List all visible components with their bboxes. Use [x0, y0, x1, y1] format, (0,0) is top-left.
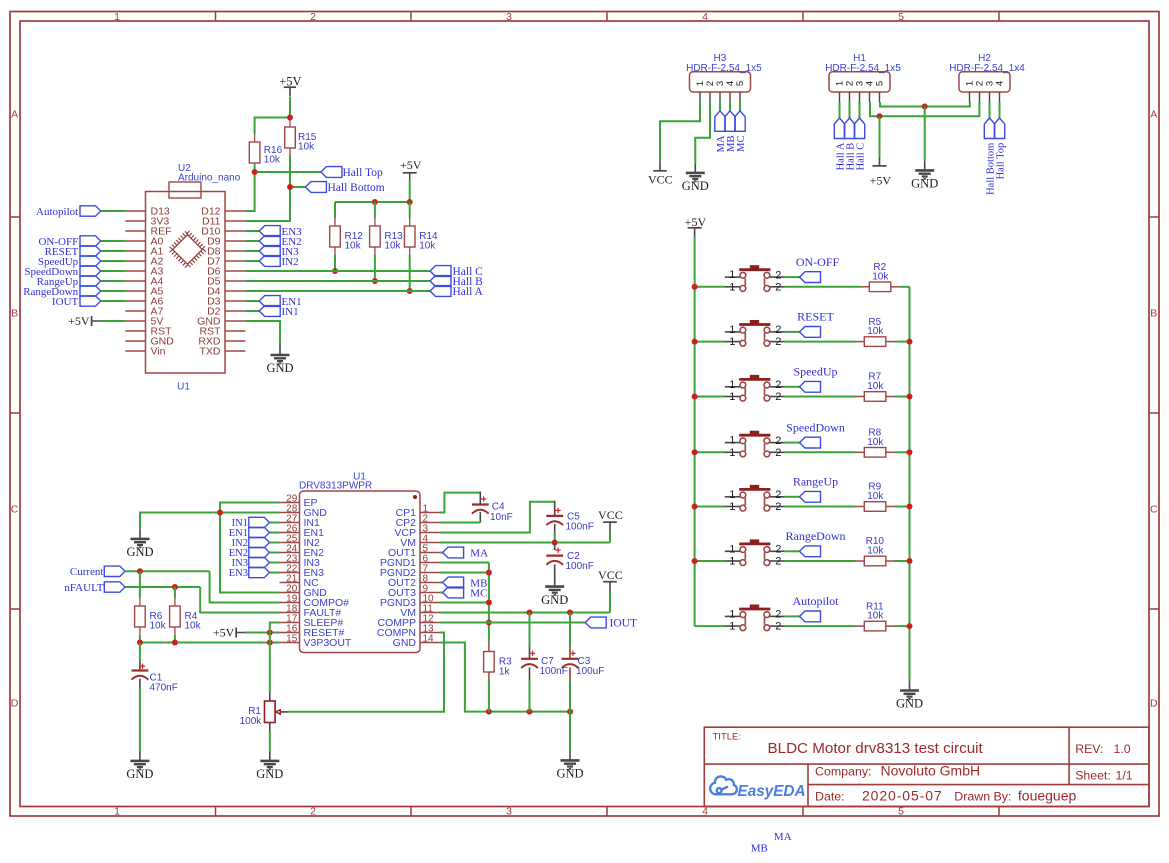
wire H1 pin5 to GND rail to H2 pin1: [880, 102, 970, 107]
net flag MA: [443, 547, 464, 558]
net flag Autopilot: [800, 611, 821, 622]
ground symbol bottom right of DRV: [561, 751, 580, 769]
svg-text:3: 3: [506, 806, 512, 818]
svg-text:+5V: +5V: [400, 158, 422, 172]
Arduino pin D7 (right): [225, 260, 245, 262]
capacitor C3 100uF: [569, 613, 571, 647]
wire rail to ground: [569, 712, 571, 751]
svg-text:1.0: 1.0: [1114, 742, 1131, 756]
wire PGND2 pin7: [440, 572, 489, 574]
junction right bus: [907, 449, 913, 455]
VCC power symbol 1: [609, 532, 611, 543]
wire C3 to rail: [569, 668, 571, 680]
net flag Hall C vertical: [854, 118, 864, 139]
svg-text:Vin: Vin: [151, 346, 166, 358]
svg-text:C: C: [11, 504, 19, 516]
wire H3 pin3 to flag MA: [719, 102, 721, 111]
svg-text:EN3: EN3: [229, 568, 248, 579]
border column ticks top: [215, 12, 217, 22]
svg-text:SpeedDown: SpeedDown: [786, 420, 845, 434]
net flag Hall Bottom vertical: [984, 118, 994, 139]
svg-text:D: D: [1150, 698, 1158, 710]
push button S1 (ON-OFF): [725, 277, 785, 287]
Arduino pin A6 (left): [125, 300, 145, 302]
svg-text:5: 5: [875, 81, 886, 86]
svg-text:GND: GND: [256, 767, 283, 781]
svg-text:2: 2: [775, 489, 781, 501]
svg-text:MA: MA: [470, 547, 488, 559]
wire flag EN2 to pin: [270, 552, 280, 554]
Arduino pin D4 (right): [225, 290, 245, 292]
svg-text:DRV8313PWPR: DRV8313PWPR: [299, 481, 372, 492]
svg-text:+5V: +5V: [68, 314, 90, 328]
wire OUT2 pin8 to MB flag: [440, 582, 443, 584]
ground symbol below C1: [130, 751, 149, 769]
wire H3 pin4 to flag MB: [729, 102, 731, 111]
junction right bus: [907, 623, 913, 629]
ground symbol at bottom of right bus: [900, 681, 919, 699]
Arduino pin A0 (left): [125, 240, 145, 242]
title block REV/Sheet column divider: [1068, 727, 1070, 784]
svg-text:B: B: [11, 308, 18, 320]
DRV8313 pin 28 GND: [280, 512, 300, 514]
DRV8313 pin 25 IN2: [280, 542, 300, 544]
wire button SpeedUp to flag: [785, 386, 800, 388]
net flag RangeDown: [80, 286, 101, 296]
net flag IN2: [259, 256, 280, 267]
junction C7 on VM: [527, 610, 533, 616]
Arduino pin GND (left): [125, 340, 145, 342]
Arduino pin D5 (right): [225, 280, 245, 282]
+5V power symbol below H1 (bar up): [879, 116, 881, 157]
resistor R4 10k: [174, 587, 176, 598]
svg-text:Arduino_nano: Arduino_nano: [178, 173, 241, 184]
wire flag IN1 to pin: [270, 522, 280, 524]
wire R9 to right bus: [895, 506, 910, 508]
Arduino pin 5V (left): [125, 320, 145, 322]
wire D11 to R15 node: [245, 187, 290, 221]
svg-text:RangeUp: RangeUp: [793, 475, 838, 489]
header H3 body: [690, 72, 751, 92]
resistor R9 10k: [856, 506, 864, 508]
wire PGND3 pin10: [440, 602, 489, 604]
header H1 pin 3 stub: [859, 92, 861, 102]
wire bus to button Autopilot: [695, 625, 726, 627]
svg-text:2: 2: [775, 501, 781, 513]
svg-text:C: C: [1150, 504, 1158, 516]
svg-text:1/1: 1/1: [1116, 769, 1133, 783]
net flag IN3: [259, 246, 280, 257]
push button S3 (SpeedUp): [725, 387, 785, 397]
svg-text:Hall A: Hall A: [453, 286, 484, 298]
svg-text:1: 1: [729, 556, 735, 568]
wire R13 to D5: [374, 255, 376, 281]
svg-text:1: 1: [729, 269, 735, 281]
Arduino pin TXD (right): [225, 350, 245, 352]
junction left bus: [692, 504, 698, 510]
DRV8313 pin 14 GND: [420, 642, 440, 644]
wire button ON-OFF to resistor R2: [785, 286, 861, 288]
svg-text:2: 2: [310, 806, 316, 818]
ground symbol below H1/H2 rail: [915, 161, 934, 179]
wire bus to button RangeUp: [695, 506, 726, 508]
wire R16 bottom to Hall Top node: [254, 163, 256, 172]
wire RangeUp to pin: [101, 280, 126, 282]
svg-text:1: 1: [729, 324, 735, 336]
net flag ON-OFF: [80, 236, 101, 246]
wire R11 to right bus: [895, 625, 910, 627]
net flag Hall Top: [321, 167, 342, 178]
svg-text:100k: 100k: [240, 716, 263, 727]
svg-text:foueguep: foueguep: [1018, 788, 1077, 804]
wire COMPP pin12 to IOUT flag: [440, 622, 585, 624]
svg-text:10k: 10k: [298, 141, 315, 152]
wire CP1 pin1 to C4: [440, 493, 480, 513]
junction rail/R14: [407, 199, 413, 205]
header H3 pin 2 stub: [709, 92, 711, 102]
svg-text:2: 2: [775, 379, 781, 391]
svg-text:1: 1: [729, 379, 735, 391]
junction rail/R6: [137, 640, 143, 646]
junction R3 bottom: [486, 709, 492, 715]
wire H1 pin1 to flag Hall A: [839, 102, 841, 118]
wire H1 pin3 to flag Hall C: [859, 102, 861, 118]
header H1 pin 1 stub: [839, 92, 841, 102]
junction +5V stem on pin4 rail: [877, 113, 883, 119]
Arduino pin A1 (left): [125, 250, 145, 252]
wire button RangeDown to resistor R10: [785, 560, 856, 562]
DRV8313 pin 4 VM: [420, 542, 440, 544]
wire left +5V bus: [694, 237, 696, 627]
header H2 body: [959, 72, 1010, 92]
resistor R13 10k: [374, 202, 376, 218]
svg-text:IOUT: IOUT: [52, 296, 79, 308]
wire H3 pin2 to GND: [695, 102, 710, 163]
DRV8313 pin 3 VCP: [420, 532, 440, 534]
Arduino pin D10 (right): [225, 230, 245, 232]
Arduino pin D6 (right): [225, 270, 245, 272]
svg-text:2: 2: [775, 269, 781, 281]
wire flag EN1 to pin: [270, 532, 280, 534]
wire H2 pin3 to flag Hall Bottom: [989, 102, 991, 118]
DRV8313 pin 2 CP2: [420, 522, 440, 524]
wire RESET to pin: [101, 250, 126, 252]
DRV8313 pin 27 IN1: [280, 522, 300, 524]
title block row divider 1: [704, 763, 1149, 765]
junction right bus: [907, 504, 913, 510]
wire VM pin4 to VCC: [440, 542, 610, 544]
wire D-pin to flag EN1: [245, 300, 259, 302]
junction PGND3: [486, 600, 492, 606]
svg-text:1: 1: [729, 501, 735, 513]
ground symbol under H3 pin2: [686, 163, 705, 181]
net flag EN2 into DRV: [249, 547, 270, 557]
potentiometer R1 100k: [269, 692, 271, 701]
svg-text:V3P3OUT: V3P3OUT: [304, 637, 352, 649]
svg-text:15: 15: [286, 633, 298, 644]
Arduino pin D8 (right): [225, 250, 245, 252]
wire button RangeDown to flag: [785, 550, 800, 552]
junction right bus: [907, 558, 913, 564]
header H1 body: [829, 72, 890, 92]
junction nFAULT/R4: [172, 584, 178, 590]
svg-text:Hall Bottom: Hall Bottom: [328, 182, 385, 194]
svg-text:1: 1: [729, 391, 735, 403]
svg-text:1: 1: [729, 621, 735, 633]
wire C1 to ground: [139, 679, 141, 688]
wire R2 to right bus: [900, 286, 910, 288]
resistor R14 10k: [409, 202, 411, 218]
svg-text:IN2: IN2: [282, 256, 299, 268]
svg-text:Hall Top: Hall Top: [343, 167, 383, 179]
DRV8313 pin 7 PGND2: [420, 572, 440, 574]
wire Hall Top: [255, 171, 321, 173]
wire R7 to right bus: [895, 396, 910, 398]
wire right output bus: [909, 287, 911, 681]
net flag Current: [104, 566, 125, 576]
wire +5V rail over R12-R14: [335, 201, 410, 203]
wire R6 to rail: [139, 635, 141, 643]
wire COMPN pin13 to R1 wiper: [288, 633, 445, 712]
wire D6 to Hall C flag: [245, 270, 430, 272]
net flag MC vertical: [735, 111, 745, 132]
svg-text:TXD: TXD: [200, 346, 221, 358]
Arduino pin A7 (left): [125, 310, 145, 312]
net flag RESET: [80, 246, 101, 256]
wire C5 to VM net: [554, 524, 556, 533]
svg-text:MA: MA: [774, 831, 792, 843]
svg-text:GND: GND: [393, 637, 417, 649]
svg-text:1: 1: [729, 608, 735, 620]
Arduino pin GND (right): [225, 320, 245, 322]
svg-text:10k: 10k: [264, 155, 281, 166]
wire button Autopilot to resistor R11: [785, 625, 856, 627]
ground symbol left of DRV: [131, 529, 150, 547]
wire button RESET to flag: [785, 331, 800, 333]
Arduino pin D11 (right): [225, 220, 245, 222]
junction C3 on VM: [567, 610, 573, 616]
svg-text:2: 2: [775, 281, 781, 293]
wire D-pin to flag IN1: [245, 310, 259, 312]
svg-text:Sheet:: Sheet:: [1075, 769, 1111, 783]
DRV8313 pin 17 SLEEP#: [280, 622, 300, 624]
svg-text:GND: GND: [541, 593, 568, 607]
DRV8313 pin 20 GND: [280, 592, 300, 594]
net flag MB: [443, 577, 464, 588]
DRV8313 pin 12 COMPP: [420, 622, 440, 624]
svg-text:IN1: IN1: [282, 306, 299, 318]
net flag EN2: [259, 236, 280, 247]
svg-text:VCC: VCC: [648, 173, 673, 187]
svg-text:Hall Top: Hall Top: [995, 143, 1006, 180]
wire H3 pin5 to flag MC: [739, 102, 741, 111]
svg-text:Autopilot: Autopilot: [36, 206, 78, 218]
resistor R12 10k: [334, 202, 336, 218]
wire R15 bottom to Hall Bottom node: [289, 155, 291, 187]
svg-text:Novoluto GmbH: Novoluto GmbH: [881, 763, 981, 779]
wire PGND vertical to R3: [488, 563, 490, 642]
net flag IOUT: [585, 617, 606, 628]
svg-text:100nF: 100nF: [540, 666, 568, 677]
net flag MB vertical: [725, 111, 735, 132]
Arduino nano USB connector rectangle: [169, 182, 201, 198]
wire node to R16 top: [255, 118, 290, 135]
svg-text:RESET: RESET: [797, 310, 834, 324]
svg-text:100nF: 100nF: [566, 522, 594, 533]
svg-text:100uF: 100uF: [576, 666, 604, 677]
svg-text:B: B: [1150, 308, 1157, 320]
DRV8313 pin 23 IN3: [280, 562, 300, 564]
net flag EN1 into DRV: [249, 527, 270, 537]
wire R12 to D6: [334, 255, 336, 271]
wire button ON-OFF to flag: [785, 276, 800, 278]
svg-text:1k: 1k: [499, 667, 511, 678]
capacitor C5 100nF: [554, 501, 556, 516]
DRV8313 pin 18 FAULT#: [280, 612, 300, 614]
junction PGND2: [486, 570, 492, 576]
Arduino nano U2 body: [146, 192, 226, 374]
svg-text:IOUT: IOUT: [610, 617, 637, 629]
junction left bus: [692, 284, 698, 290]
Arduino pin RST (right): [225, 330, 245, 332]
wire R5 to right bus: [895, 341, 910, 343]
junction rail/R4: [172, 640, 178, 646]
net flag RangeDown: [800, 546, 821, 557]
svg-text:Autopilot: Autopilot: [792, 594, 839, 608]
DRV8313 pin 19 COMPO#: [280, 602, 300, 604]
ground symbol below Arduino: [271, 345, 290, 363]
net flag Autopilot: [80, 206, 101, 216]
junction R14/D4 Hall A: [407, 288, 413, 294]
wire nFAULT to FAULT# pin18: [200, 587, 279, 613]
wire D-pin to flag IN2: [245, 260, 259, 262]
header H1 pin 2 stub: [849, 92, 851, 102]
wire button RangeUp to resistor R9: [785, 506, 856, 508]
wire H2 pin4 to flag Hall Top: [999, 102, 1001, 118]
svg-text:RangeDown: RangeDown: [786, 529, 846, 543]
svg-text:Company:: Company:: [815, 765, 871, 779]
svg-text:Drawn By:: Drawn By:: [954, 790, 1011, 804]
svg-text:10k: 10k: [867, 546, 884, 557]
header H1 pin 5 stub: [879, 92, 881, 102]
Arduino pin 3V3 (left): [125, 220, 145, 222]
svg-text:10k: 10k: [867, 611, 884, 622]
svg-text:VCC: VCC: [598, 568, 623, 582]
Arduino pin D2 (right): [225, 310, 245, 312]
junction R13/D5 Hall B: [372, 278, 378, 284]
Arduino pin A5 (left): [125, 290, 145, 292]
wire bus to button SpeedUp: [695, 396, 726, 398]
wire D4 to Hall A flag: [245, 290, 430, 292]
wire flag IN3 to pin: [270, 562, 280, 564]
wire R10 to right bus: [895, 560, 910, 562]
wire Current to COMPO# pin19: [210, 571, 280, 602]
net flag ON-OFF: [800, 272, 821, 283]
svg-text:TITLE:: TITLE:: [713, 732, 742, 743]
net flag Hall Bottom: [305, 182, 326, 193]
Arduino pin RST (left): [125, 330, 145, 332]
resistor R8 10k: [856, 451, 864, 453]
DRV8313 pin 22 EN3: [280, 572, 300, 574]
resistor R10 10k: [856, 560, 864, 562]
svg-text:A: A: [1150, 109, 1157, 121]
Arduino nano MCU diamond symbol: [170, 232, 205, 267]
wire nFAULT net: [125, 586, 200, 588]
wire D12 to R16 node: [245, 172, 254, 211]
capacitor C2 100nF: [554, 543, 556, 551]
header H3 pin 1 stub: [699, 92, 701, 102]
svg-text:100nF: 100nF: [566, 561, 594, 572]
wire Current net: [125, 570, 210, 572]
junction C7 bottom: [527, 709, 533, 715]
net flag MC: [443, 587, 464, 598]
Arduino pin Vin (left): [125, 350, 145, 352]
svg-text:1: 1: [729, 543, 735, 555]
net flag Hall B vertical: [844, 118, 854, 139]
svg-text:BLDC Motor drv8313 test circui: BLDC Motor drv8313 test circuit: [768, 740, 984, 757]
net flag nFAULT: [104, 582, 125, 592]
wire junction down to ground: [924, 107, 926, 161]
wire IOUT to pin: [101, 300, 126, 302]
Arduino pin A3 (left): [125, 270, 145, 272]
header H2 pin 3 stub: [989, 92, 991, 102]
svg-text:D: D: [11, 698, 19, 710]
header H2 pin 1 stub: [969, 92, 971, 102]
svg-text:3: 3: [506, 11, 512, 23]
wire flag IN2 to pin: [270, 542, 280, 544]
wire OUT3 pin9 to MC flag: [440, 592, 443, 594]
svg-text:+5V: +5V: [870, 173, 892, 187]
wire button RESET to resistor R5: [785, 341, 856, 343]
junction C3 bottom / ground drop: [567, 709, 573, 715]
svg-text:4: 4: [702, 11, 708, 23]
wire button SpeedDown to flag: [785, 442, 800, 444]
header H2 pin 2 stub: [979, 92, 981, 102]
DRV8313 pin 13 COMPN: [420, 632, 440, 634]
wire V3P3OUT rail: [140, 642, 280, 644]
net flag Hall B: [430, 276, 451, 287]
wire H3 pin1 to VCC: [660, 102, 700, 162]
wire button SpeedUp to resistor R7: [785, 396, 856, 398]
svg-text:10k: 10k: [872, 271, 889, 282]
wire SpeedUp to pin: [101, 260, 126, 262]
border row ticks right: [1149, 216, 1159, 218]
net flag RESET: [800, 327, 821, 338]
svg-text:10k: 10k: [185, 621, 202, 632]
wire D-pin to flag EN2: [245, 240, 259, 242]
svg-text:GND: GND: [682, 179, 709, 193]
resistor R16 10k: [254, 134, 256, 142]
title block logo cell divider: [807, 764, 809, 806]
DRV8313 pin 29 EP: [280, 502, 300, 504]
net flag Hall Top vertical: [994, 118, 1004, 139]
svg-text:REV:: REV:: [1075, 742, 1103, 756]
EasyEDA logo cloud icon: [710, 776, 737, 794]
DRV8313 pin 6 PGND1: [420, 562, 440, 564]
wire EP to GND pin20: [220, 503, 280, 593]
DRV8313 pin 10 PGND3: [420, 602, 440, 604]
junction Current/R6: [137, 568, 143, 574]
svg-text:GND: GND: [126, 767, 153, 781]
svg-text:470nF: 470nF: [150, 683, 178, 694]
svg-text:2: 2: [775, 556, 781, 568]
svg-text:1: 1: [729, 281, 735, 293]
resistor R15 10k: [289, 118, 291, 128]
svg-text:10k: 10k: [867, 326, 884, 337]
wire SpeedDown to pin: [101, 270, 126, 272]
net flag IN2 into DRV: [249, 537, 270, 547]
junction R16/D12/HallTop: [252, 169, 258, 175]
